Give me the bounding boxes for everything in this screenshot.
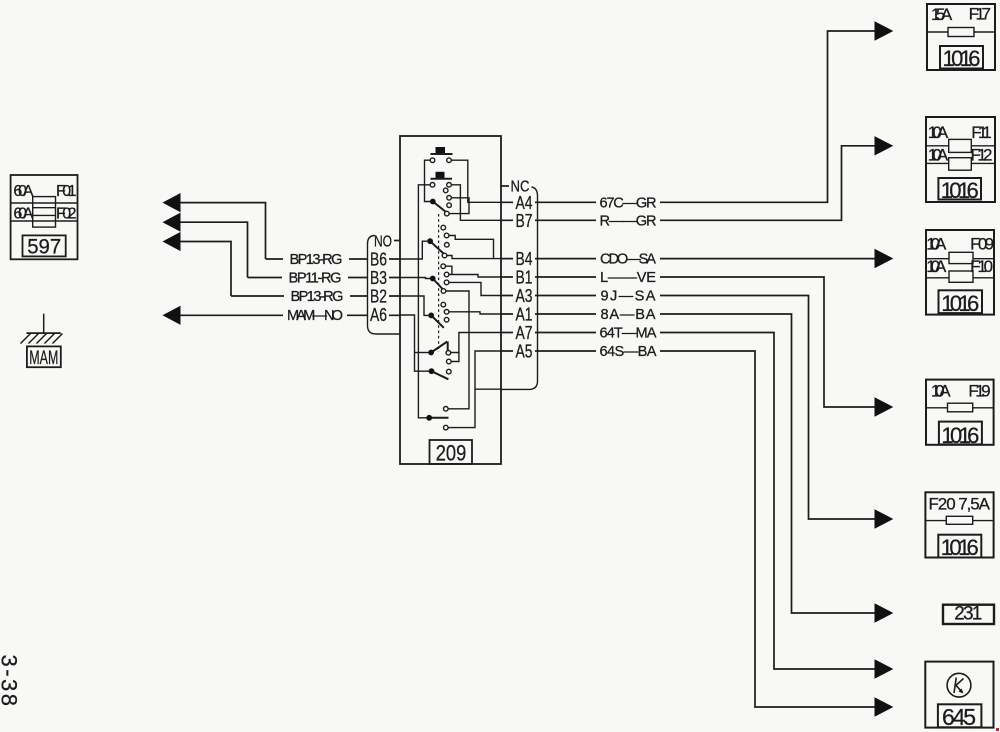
svg-text:15A: 15A: [931, 5, 953, 24]
svg-text:1016: 1016: [941, 291, 979, 316]
svg-text:F19: F19: [968, 382, 990, 401]
svg-text:64S—BA: 64S—BA: [600, 344, 657, 360]
svg-text:F20 7,5A: F20 7,5A: [929, 495, 991, 514]
svg-text:1016: 1016: [941, 178, 979, 203]
svg-text:B6: B6: [370, 250, 387, 270]
svg-text:F09: F09: [970, 235, 994, 254]
svg-text:F10: F10: [970, 257, 993, 276]
svg-text:BP13-RG: BP13-RG: [290, 252, 343, 268]
svg-text:10A: 10A: [926, 257, 947, 276]
svg-text:A3: A3: [516, 286, 533, 306]
svg-text:10A: 10A: [931, 382, 951, 401]
svg-text:MAM: MAM: [29, 348, 58, 369]
svg-text:231: 231: [954, 604, 982, 625]
svg-text:BP13-RG: BP13-RG: [291, 289, 344, 305]
svg-text:B3: B3: [370, 268, 387, 288]
svg-text:1016: 1016: [941, 535, 979, 560]
svg-text:B2: B2: [370, 287, 387, 307]
svg-text:F11: F11: [971, 123, 991, 142]
svg-text:60A: 60A: [13, 205, 33, 222]
svg-text:597: 597: [27, 235, 61, 259]
svg-text:NO: NO: [374, 234, 392, 251]
svg-text:64T—MA: 64T—MA: [600, 326, 657, 342]
svg-text:10A: 10A: [928, 123, 949, 142]
svg-text:F01: F01: [56, 183, 77, 200]
svg-text:A4: A4: [516, 193, 533, 213]
svg-text:F12: F12: [971, 146, 993, 165]
svg-text:A1: A1: [516, 305, 533, 325]
svg-text:BP11-RG: BP11-RG: [289, 271, 342, 287]
svg-text:10A: 10A: [928, 146, 949, 165]
svg-text:B7: B7: [516, 211, 533, 231]
svg-text:A7: A7: [516, 323, 533, 343]
svg-text:MAM—NO: MAM—NO: [287, 308, 343, 324]
svg-text:A5: A5: [516, 342, 533, 362]
svg-text:F17: F17: [969, 5, 991, 24]
svg-text:1016: 1016: [943, 46, 981, 71]
svg-text:CDO—SA: CDO—SA: [600, 252, 656, 268]
svg-text:10A: 10A: [926, 235, 947, 254]
svg-text:B1: B1: [516, 268, 533, 288]
svg-text:645: 645: [942, 704, 976, 730]
svg-text:1016: 1016: [941, 423, 979, 448]
svg-text:B4: B4: [516, 249, 533, 269]
svg-text:8A—BA: 8A—BA: [601, 307, 656, 323]
svg-text:60A: 60A: [13, 183, 33, 200]
svg-text:209: 209: [436, 441, 467, 466]
svg-text:R——GR: R——GR: [600, 213, 657, 229]
svg-text:67C—GR: 67C—GR: [600, 195, 657, 211]
svg-text:3-38: 3-38: [0, 654, 22, 708]
svg-text:A6: A6: [370, 305, 387, 325]
svg-text:F02: F02: [56, 205, 77, 222]
svg-text:L——VE: L——VE: [600, 270, 656, 286]
